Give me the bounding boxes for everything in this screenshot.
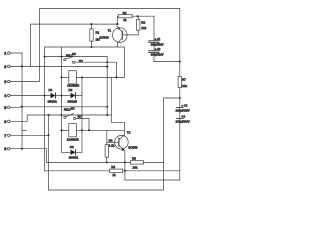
svg-text:R6: R6 [111,165,115,169]
resistor R2 [117,11,154,24]
terminal 1 [4,52,10,56]
wire t2 riser x30.5 to y24.1 line to T1 emitter node [31,24,118,66]
svg-text:BC558: BC558 [128,146,138,150]
wire caps to right rail [154,61,180,63]
node bus REL1 coil [61,76,63,78]
node right rail top [179,61,181,63]
wire x107.2 vertical from NC1 corner down to y115 line [106,57,108,115]
wire terminal 7 to x48.5 [10,134,48,136]
wire terminal 1 elbow down x22 to t8 row [10,53,22,149]
svg-text:4: 4 [4,94,7,98]
rail A y162.4 with resistor R5 [47,161,131,163]
node D1 D2 bus junction [61,95,63,97]
svg-text:R2: R2 [123,11,127,15]
wire left bus x61.5 [61,47,63,152]
node NC1 bus crossing [61,56,63,58]
svg-text:2: 2 [4,65,6,69]
svg-text:1: 1 [4,52,6,56]
svg-text:8: 8 [4,147,6,151]
node emitter rail A [124,161,126,163]
node R4 bottom rail A [106,161,108,163]
svg-text:12V/320R: 12V/320R [67,137,79,141]
wire terminal 8 elbow to rail A [10,149,46,163]
relay coil REL1 [62,71,125,88]
svg-text:12V/320R: 12V/320R [67,83,79,87]
resistor R1 [90,24,100,47]
svg-text:100µF/16V: 100µF/16V [151,52,164,56]
rail B y170.8 with resistor R6 [45,170,110,172]
node NO1 x107.2 [106,61,108,63]
capacitor C2 [149,47,164,62]
svg-text:1N4148: 1N4148 [68,100,78,104]
diode D2 [62,88,83,104]
node x82 coil2 line junction [81,129,83,131]
wire REL2 NO line y118 down x89 [76,118,89,130]
svg-text:10k: 10k [182,84,187,88]
node y115 x48.5 junction [48,114,50,116]
svg-text:T2: T2 [127,131,131,135]
svg-text:R3: R3 [141,20,145,24]
terminal 2 [4,65,10,69]
svg-text:1k: 1k [123,18,127,22]
node emitter rail B [124,170,126,172]
svg-text:100µF/16V: 100µF/16V [176,108,190,112]
terminal 4 [4,94,10,98]
svg-text:5: 5 [4,106,6,110]
wire D2 cathode up to coil1 line and down to D3 [81,77,83,152]
node t4 x44.6 junction [44,95,46,97]
diode D1 [48,88,62,104]
svg-text:+ C2: + C2 [155,47,161,51]
node R1 top [91,23,93,25]
wire T1 collector down jog to x124.4 down to T2 collector [118,43,125,77]
wire x111.3 descent from coil1 line through y115 to jog into T2 collector [111,77,124,135]
terminal 7 [4,134,10,138]
svg-text:1.0k: 1.0k [109,143,115,147]
diode D3 [62,145,83,160]
svg-text:1N4001: 1N4001 [69,156,79,160]
svg-text:6: 6 [4,120,6,124]
wire T2 emitter down to rail C [125,150,180,180]
svg-text:1k8: 1k8 [141,26,146,30]
capacitor C4 label [176,114,190,123]
wire terminal 3 riser x39.5 top line y8.4 down right side x179.8 [10,8,180,180]
svg-text:NC: NC [71,106,75,110]
resistor R7 [178,76,187,88]
resistor R3 [123,16,146,35]
node t2 junction x22 [21,65,23,67]
svg-text:7: 7 [4,134,6,138]
wire R7 node left down x163.5 to rail D [49,98,180,190]
transistor T1 [100,26,128,43]
wire REL1 NC line y56.6 ending corner x107.2 [45,56,108,58]
capacitor C3 label [176,103,190,112]
svg-text:R7: R7 [182,78,186,82]
node y115 x107.2 junction [106,114,108,116]
node R2 R3 junction [137,15,139,17]
node x89 coil2 line [88,129,90,131]
node t5 x107.2 junction [106,106,108,108]
svg-text:NC: NC [72,52,76,56]
wire terminal 5 long line y106.8 [10,106,107,109]
svg-text:100µF/16V: 100µF/16V [176,119,190,123]
terminal 6 [4,120,10,124]
svg-text:D1: D1 [49,88,53,92]
relay REL1 contact [64,52,83,63]
svg-text:R1: R1 [96,31,100,35]
svg-text:+ C3: + C3 [182,103,188,107]
svg-text:+ C1: + C1 [155,37,161,41]
resistor R4 [105,130,115,162]
svg-text:BC548: BC548 [100,36,110,40]
node coil1 line x82 [81,76,83,78]
node R1 bottom [91,46,93,48]
node T1 emitter top [116,23,118,25]
svg-text:1k: 1k [112,173,116,177]
resistor R6 [110,165,180,177]
wire main left vertical x44.6 from y47 corner to rail B [44,47,46,171]
terminal 8 [4,147,10,151]
terminal 5 [4,106,10,110]
node NC1 left vertical junction [44,56,46,58]
wire terminal 4 to diode chain [10,95,49,97]
wire terminal 2 long line y66.4 [10,65,107,67]
node t7 x48.5 junction [48,134,50,136]
svg-text:1N4001: 1N4001 [48,100,58,104]
wire terminal 6 riser to y115 line ending at x111.3 [10,115,111,121]
wire collector bus y47 from x44.6 corner to T1 collector [45,46,118,48]
terminal 3 [4,80,10,84]
svg-text:10k: 10k [133,166,138,170]
wire x48.5 vertical from y115 to rail D [48,115,50,190]
node t2 line x107.2 end [106,66,108,68]
wire REL1 NO line y62.4 down x116.4 [75,62,117,77]
svg-text:100µF/16V: 100µF/16V [151,42,164,46]
svg-text:R5: R5 [132,157,136,161]
node t5 x22 junction [21,106,23,108]
node t8 x22 junction [21,148,23,150]
node R7 bottom [179,97,181,99]
relay coil REL2 [62,124,125,142]
capacitor C1 [149,37,164,51]
svg-text:D3: D3 [70,145,74,149]
node bus REL2 coil [61,129,63,131]
wire stub x22 to coil2 row [22,129,27,131]
node y115 bus crossing [61,114,63,116]
wire R2 R3 node down x154 to capacitors [153,16,155,41]
svg-text:D2: D2 [69,88,73,92]
svg-text:T1: T1 [108,28,112,32]
transistor T2 [107,131,138,151]
svg-text:C4: C4 [182,114,186,118]
relay REL2 contact [64,106,82,119]
resistor R5 [130,157,163,170]
svg-text:3: 3 [4,80,6,84]
node coil1 line x116.4 [115,76,117,78]
